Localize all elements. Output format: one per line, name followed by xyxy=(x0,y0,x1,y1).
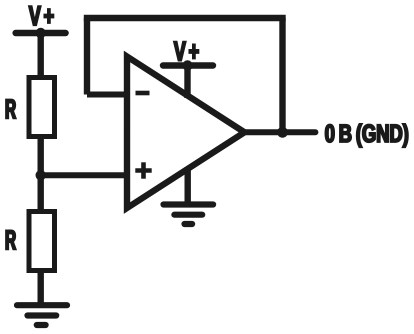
power rail bar V+ (left) xyxy=(16,30,66,36)
junction dot on op-amp V+ rail xyxy=(182,60,192,70)
wire node to resistor R2 xyxy=(38,175,44,210)
resistor R2 label R xyxy=(6,230,16,249)
node A junction dot xyxy=(36,170,46,180)
wire R1 bottom to node xyxy=(38,139,44,175)
feedback wire top horizontal xyxy=(84,15,286,22)
resistor R2 body xyxy=(29,212,55,271)
wire R2 bottom to ground xyxy=(38,273,44,305)
ground (bottom left) xyxy=(17,305,67,325)
wire op-amp V+ stub xyxy=(184,66,190,99)
feedback wire right vertical xyxy=(279,18,285,132)
feedback wire left vertical xyxy=(84,18,90,95)
output label 0 B (GND) xyxy=(325,124,407,147)
wire op-amp minus input xyxy=(87,92,127,98)
power label V+ (left rail) xyxy=(29,6,54,25)
op-amp minus sign xyxy=(136,91,150,96)
ground (op-amp) xyxy=(164,205,214,225)
resistor R1 body xyxy=(29,78,55,137)
power rail bar V+ (op-amp) xyxy=(163,62,213,68)
op-amp U1 triangle xyxy=(127,57,245,209)
op-amp plus sign xyxy=(135,162,151,178)
output wire xyxy=(245,129,316,135)
wire op-amp ground stub xyxy=(184,167,190,205)
output junction dot xyxy=(277,127,288,138)
power label V+ (op-amp supply) xyxy=(174,42,199,61)
wire node to op-amp plus input xyxy=(41,172,127,178)
wire V+ rail to resistor R1 xyxy=(38,33,44,76)
junction dot on V+ rail xyxy=(36,28,46,38)
resistor R1 label R xyxy=(6,100,16,119)
